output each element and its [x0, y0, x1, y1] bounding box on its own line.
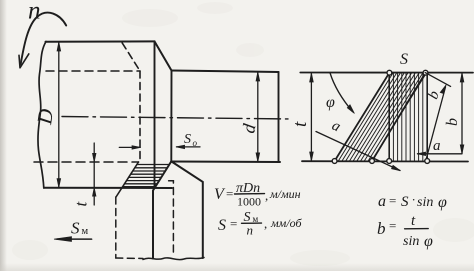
dimension a (slanted through parallelogram): [316, 132, 400, 171]
svg-text:,: ,: [265, 188, 268, 203]
centre axis (dash-dot): [62, 117, 291, 120]
svg-text:b: b: [444, 118, 461, 126]
hidden vertical previous tool position (dashed): [139, 71, 141, 162]
svg-text:мм/об: мм/об: [270, 216, 302, 230]
workpiece bottom edge: [44, 187, 172, 189]
hidden machined surface bottom (dashed): [34, 161, 139, 163]
svg-text:a: a: [433, 138, 441, 154]
svg-text:S: S: [71, 219, 80, 238]
parallelogram (slant hatched): [335, 73, 390, 161]
formula a = S sin phi: [378, 192, 447, 211]
hidden machined surface top (dashed): [46, 70, 140, 72]
dimension D: [58, 43, 60, 188]
small cylinder top edge: [172, 71, 279, 73]
tool hidden shank edges (dashed): [115, 197, 117, 258]
svg-text:D: D: [32, 107, 58, 126]
svg-text:=: =: [230, 216, 237, 231]
cutting tool solid outline: [153, 161, 171, 258]
workpiece wavy break edge (left): [38, 42, 46, 189]
svg-text:b: b: [377, 219, 386, 238]
chip band left boundary: [116, 162, 139, 197]
svg-text:S: S: [218, 217, 226, 234]
dimension b (right vertical): [461, 74, 463, 154]
small cylinder bottom edge: [171, 161, 280, 164]
dimension S0 (feed per rev): [119, 146, 140, 148]
svg-text:м/мин: м/мин: [269, 187, 301, 201]
angle phi arc: [330, 73, 353, 112]
svg-text:м: м: [82, 226, 89, 237]
small cylinder end face: [278, 72, 280, 162]
formula S = Sm/n, mm/rev: [218, 210, 302, 238]
svg-text:φ: φ: [424, 233, 433, 250]
svg-text:o: o: [193, 138, 198, 148]
svg-text:n: n: [247, 223, 254, 238]
svg-text:S: S: [184, 132, 191, 147]
workpiece top edge: [46, 40, 155, 42]
svg-text:φ: φ: [326, 94, 335, 111]
shoulder face vertical: [154, 41, 156, 187]
svg-text:=: =: [389, 193, 396, 208]
svg-text:1000: 1000: [237, 195, 261, 209]
rotation arrow n: [21, 13, 66, 64]
dimension t (depth of cut, left): [93, 143, 95, 205]
formula V = piDn/1000, m/min: [214, 181, 301, 209]
svg-text:,: ,: [264, 216, 267, 231]
svg-text:sin: sin: [403, 234, 419, 249]
svg-text:=: =: [226, 186, 233, 201]
svg-text:S: S: [401, 194, 409, 210]
formula b = t / sin phi: [377, 213, 433, 250]
svg-text:=: =: [389, 218, 396, 233]
rectangle (vertical hatched): [388, 73, 390, 161]
dimension b (inner arrow along cut width): [427, 87, 446, 158]
tool bottom break line (wavy): [143, 258, 204, 260]
svg-text:t: t: [290, 121, 311, 127]
svg-text:·: ·: [412, 192, 416, 207]
shoulder chamfer (cutting cone): [155, 41, 172, 70]
hidden future chamfer (dashed): [122, 43, 140, 71]
dimension d: [257, 73, 259, 162]
cone-to-small-cylinder edge: [170, 71, 172, 162]
dimension t (right diagram): [310, 74, 312, 161]
chip hatch band (left drawing): [123, 165, 170, 187]
top surface line: [300, 72, 473, 74]
svg-text:S: S: [400, 51, 408, 68]
dimension a (bottom right horizontal): [418, 153, 463, 155]
svg-text:sin: sin: [417, 195, 433, 210]
bottom surface line: [302, 160, 468, 162]
node circles: [332, 70, 429, 163]
svg-text:a: a: [378, 193, 386, 210]
svg-text:φ: φ: [438, 194, 447, 211]
